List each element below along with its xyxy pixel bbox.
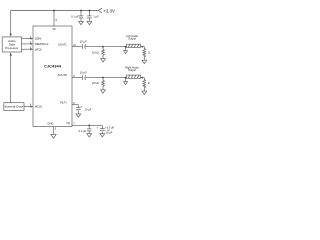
resistor R3 10kOhm shunt right (102, 78, 105, 89)
wire (85, 77, 126, 79)
capacitor C4 10uF series right (81, 75, 83, 80)
ground (79, 21, 84, 24)
node arrow into processor bottom (10, 52, 12, 55)
svg-text:AOUTR: AOUTR (58, 73, 67, 77)
wire AOUTL (72, 46, 82, 48)
pin label AOUTR (58, 73, 67, 77)
ground small at connector (125, 78, 127, 82)
node junction VA (53, 10, 55, 12)
pin number 9 VA (56, 19, 58, 22)
svg-text:9: 9 (56, 19, 58, 22)
pin label VA (52, 27, 56, 31)
svg-text:DEM/SCLK: DEM/SCLK (35, 42, 49, 46)
ground (101, 59, 106, 62)
capacitor C6 0.1uF VQ (88, 125, 90, 128)
label load resistor right clipped (148, 81, 155, 85)
wire LRCK (22, 48, 31, 50)
ground (76, 114, 81, 117)
node junction (102, 46, 104, 48)
label 0.1uF VQ (79, 129, 87, 133)
label 10uF VQ (106, 131, 113, 135)
wire (85, 46, 126, 48)
svg-text:10 µF: 10 µF (80, 40, 87, 44)
pin label LRCK (35, 47, 42, 51)
svg-text:10 µF: 10 µF (80, 70, 87, 74)
pin label DEM/SCLK (35, 42, 49, 46)
svg-text:10 kΩ: 10 kΩ (92, 81, 99, 85)
pin label GND (47, 122, 53, 126)
external clock box (4, 103, 24, 111)
wire DEM/SCLK (22, 43, 31, 45)
label 10uF VQ (107, 128, 109, 132)
wire top supply rail (11, 10, 99, 12)
pin number 10 AOUTL (73, 44, 76, 47)
node arrow into processor top (10, 34, 12, 37)
label Right Audio Output (125, 65, 139, 69)
capacitor C7 10uF VQ (101, 125, 103, 128)
ground (142, 60, 147, 63)
wire (141, 46, 145, 48)
label 10kOhm left (92, 51, 99, 55)
label 10uF left series (80, 40, 87, 44)
pin number 8 FILT (73, 102, 75, 105)
capacitor C3 10uF series left (81, 44, 83, 49)
pin label FILT+ (60, 101, 67, 105)
svg-text:AOUTL: AOUTL (58, 42, 67, 46)
svg-text:FILT+: FILT+ (60, 101, 67, 105)
svg-text:+: + (81, 105, 83, 108)
node +3.3V supply arrow (98, 8, 102, 13)
pin number 2 (30, 41, 32, 44)
wire GND pin (53, 127, 55, 135)
label +3.3V (103, 9, 115, 14)
wire processor to external clock (10, 56, 12, 103)
label 10uF right series (80, 70, 87, 74)
node junction (88, 125, 90, 127)
svg-text:External Clock: External Clock (5, 105, 24, 109)
svg-text:Processor: Processor (5, 46, 18, 50)
svg-text:10 kΩ: 10 kΩ (148, 81, 150, 85)
node junction (141, 77, 143, 79)
capacitor C2 1uF top (88, 11, 90, 16)
pin number 7 VQ (73, 123, 75, 126)
svg-text:10 µF: 10 µF (85, 107, 92, 111)
node junction (125, 77, 127, 79)
resistor R1 10kOhm shunt left (102, 48, 105, 59)
svg-text:0.1 µF: 0.1 µF (79, 129, 87, 133)
svg-text:+3.3 µF: +3.3 µF (105, 125, 115, 129)
wire AOUTR (72, 77, 82, 79)
pin label SDIN (35, 37, 41, 41)
wire SDIN (22, 38, 31, 40)
svg-text:LRCK: LRCK (35, 47, 42, 51)
pin label MCLK (35, 105, 43, 109)
ground (100, 134, 105, 137)
ground (87, 134, 92, 137)
label Audio Data Processor (8, 39, 16, 43)
wire drop to audio processor box (10, 11, 12, 35)
pin label VQ (66, 121, 70, 125)
pin number 6 AOUTR (73, 75, 75, 78)
resistor R2 load left (143, 47, 146, 61)
label plus VQ cap (97, 127, 99, 130)
node junction (102, 77, 104, 79)
svg-text:5: 5 (55, 127, 57, 130)
audio data processor box (2, 37, 21, 52)
pin number 5 GND (55, 127, 57, 130)
svg-text:VQ: VQ (66, 121, 70, 125)
node junction (141, 46, 143, 48)
label External Clock (5, 105, 24, 109)
label load resistor left clipped (148, 51, 155, 55)
ground (101, 90, 106, 93)
svg-text:VA: VA (52, 27, 56, 31)
label 10uF FILT (85, 107, 92, 111)
ground (51, 134, 56, 138)
svg-text:10 kΩ: 10 kΩ (92, 51, 99, 55)
svg-text:CJC4344: CJC4344 (44, 64, 62, 69)
capacitor C5 10uF FILT (76, 107, 81, 109)
svg-text:+3.3V: +3.3V (103, 9, 115, 14)
label Left Audio Output (126, 34, 138, 38)
node junction C1 (80, 10, 82, 12)
pin number 4 (30, 104, 32, 107)
capacitor C1 0.1uF top (80, 11, 82, 16)
wire MCLK (24, 106, 30, 108)
wire VA pin 9 (53, 11, 55, 27)
ground (142, 91, 147, 94)
resistor R4 load right (143, 78, 146, 92)
svg-text:10 kΩ: 10 kΩ (148, 51, 150, 55)
label 3.3uF VQ (105, 125, 115, 129)
svg-text:1 µF: 1 µF (93, 14, 99, 18)
ground small at connector (125, 47, 127, 51)
label plus FILT cap (81, 105, 83, 108)
svg-text:0.1 µF: 0.1 µF (71, 14, 79, 18)
wire VQ (72, 124, 102, 126)
node junction C2 (89, 10, 91, 12)
node junction (125, 46, 127, 48)
svg-text:MCLK: MCLK (35, 105, 43, 109)
label CJC4344 (44, 64, 62, 69)
wire FILT+ (72, 105, 78, 108)
connector J1 left output (127, 44, 141, 47)
pin number 3 (30, 46, 32, 49)
ground (87, 21, 92, 24)
label 0.1uF top (71, 14, 79, 18)
svg-text:+: + (97, 127, 99, 130)
label 10kOhm right (92, 81, 99, 85)
connector J2 right output (127, 75, 141, 78)
svg-text:GND: GND (47, 122, 53, 126)
pin label AOUTL (58, 42, 67, 46)
wire (141, 77, 145, 79)
op-amp U1 CJC4344 IC body (33, 26, 72, 127)
pin number 1 (30, 36, 32, 39)
svg-text:SDIN: SDIN (35, 37, 41, 41)
label 1uF top (93, 14, 99, 18)
